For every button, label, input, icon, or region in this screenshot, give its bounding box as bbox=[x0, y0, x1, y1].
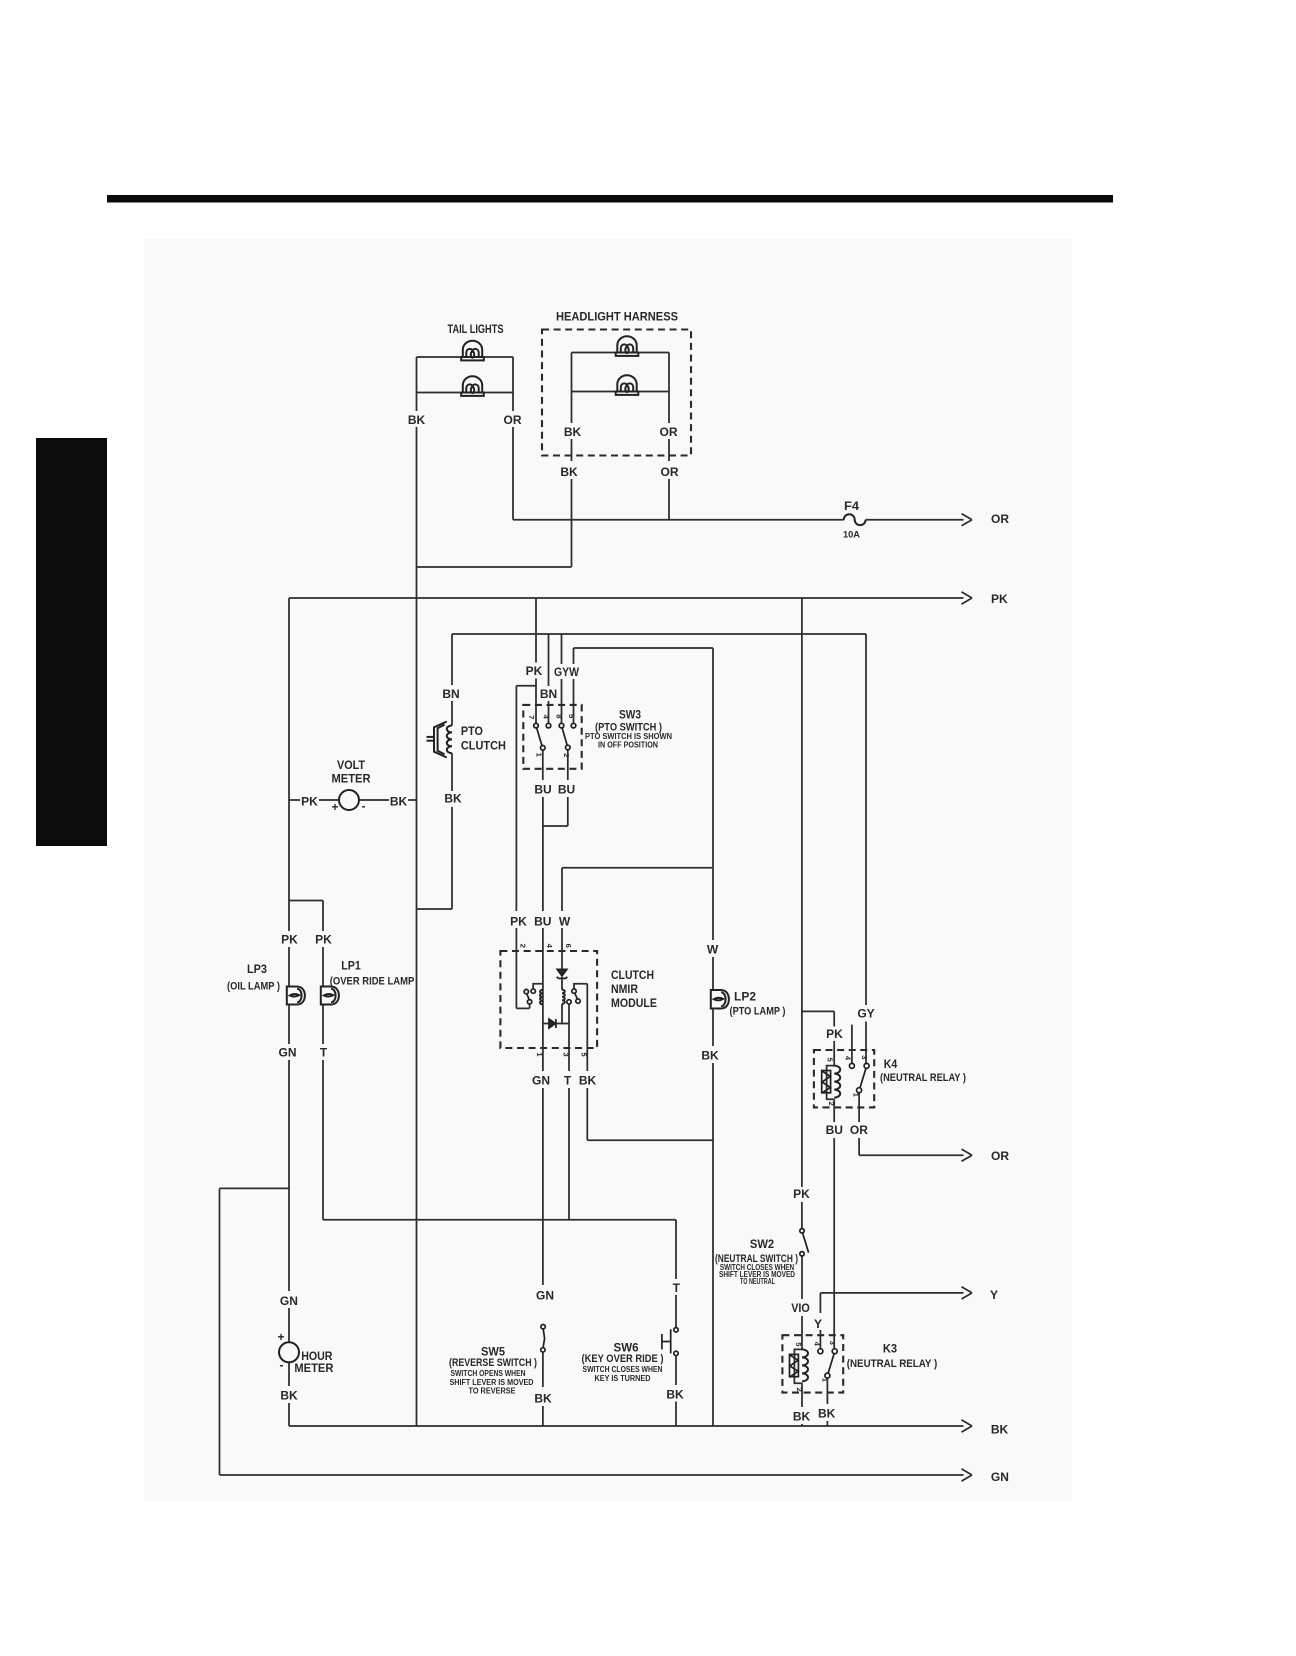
svg-text:OR: OR bbox=[660, 425, 678, 439]
wire Y stub to K3 pin4 bbox=[819, 1293, 821, 1313]
wire BK merge step bbox=[417, 566, 572, 568]
wire tail rung 1 bbox=[417, 356, 514, 358]
svg-text:2: 2 bbox=[795, 1387, 804, 1391]
K4 blade bbox=[860, 1068, 866, 1088]
svg-text:7: 7 bbox=[527, 715, 536, 719]
wire OR feed to fuse F4 bbox=[513, 519, 844, 521]
wire PK split bbox=[289, 900, 323, 902]
wire module pin5 down BK bbox=[586, 1048, 588, 1071]
wire PK branch to K4 bbox=[802, 1010, 834, 1012]
wire BK main vertical bbox=[416, 567, 418, 1426]
svg-text:CLUTCH: CLUTCH bbox=[461, 738, 506, 752]
svg-text:T: T bbox=[564, 1074, 572, 1088]
svg-text:BK: BK bbox=[701, 1049, 719, 1063]
wire GYW SW3 pin8 bbox=[561, 634, 563, 664]
wire LP3 down GN bbox=[288, 1005, 290, 1045]
wire PK bus to SW3 pin7 bbox=[535, 598, 537, 663]
wire PK left vertical bbox=[288, 598, 290, 901]
wire module pin3 down T bbox=[568, 1048, 570, 1071]
wire pin2 jog left bbox=[543, 825, 568, 827]
SW5 blade bbox=[543, 1329, 545, 1348]
wire GY horizontal bbox=[452, 633, 866, 635]
svg-text:OR: OR bbox=[991, 512, 1009, 526]
wire OR terminal arrow bbox=[859, 1154, 963, 1156]
wire volt meter horizontal bbox=[289, 799, 300, 801]
SW6 pushbutton actuator bbox=[662, 1329, 671, 1353]
top rule bar bbox=[107, 195, 1113, 203]
svg-text:BN: BN bbox=[442, 687, 459, 701]
svg-text:BK: BK bbox=[991, 1423, 1009, 1437]
coil PTO clutch bbox=[447, 726, 452, 754]
wire module pin1 down GN bbox=[542, 1048, 544, 1071]
wire K3 coil down BK bbox=[801, 1383, 803, 1407]
svg-text:2: 2 bbox=[827, 1101, 836, 1105]
wire LP1 vertical bbox=[322, 901, 324, 932]
module coil1 line (BU-GN) bbox=[542, 951, 544, 1048]
K4 pin3 circle bbox=[864, 1063, 869, 1068]
module coil 1 bbox=[540, 990, 543, 1005]
dashed box K3 bbox=[782, 1335, 843, 1392]
svg-text:METER: METER bbox=[294, 1361, 333, 1375]
svg-text:PK: PK bbox=[826, 1027, 843, 1041]
svg-text:BU: BU bbox=[558, 783, 575, 797]
svg-text:(OIL LAMP ): (OIL LAMP ) bbox=[227, 981, 280, 993]
K4 pin4 stub bbox=[851, 1025, 853, 1064]
module pin3 wire bbox=[568, 1004, 570, 1048]
svg-text:BK: BK bbox=[564, 425, 582, 439]
SW3 blade 2 bbox=[562, 728, 567, 746]
svg-text:TAIL LIGHTS: TAIL LIGHTS bbox=[448, 322, 504, 336]
wire LP3 vertical bbox=[288, 901, 290, 932]
svg-text:OR: OR bbox=[661, 465, 679, 479]
svg-text:6: 6 bbox=[564, 944, 573, 948]
svg-text:LP2: LP2 bbox=[734, 990, 756, 1004]
svg-text:BK: BK bbox=[579, 1074, 597, 1088]
module contact 1 bbox=[524, 989, 528, 993]
wire tail rung 2 bbox=[417, 392, 514, 394]
wire tail BK vertical bbox=[416, 357, 418, 411]
svg-text:BU: BU bbox=[826, 1123, 843, 1137]
dashed box headlight harness bbox=[542, 330, 691, 456]
clutch plates symbol bbox=[427, 722, 447, 758]
wire PK to SW2 bbox=[801, 1202, 803, 1229]
wire BN clutch bbox=[451, 634, 453, 685]
SW2 blade bbox=[803, 1233, 809, 1253]
SW3 pin circles bbox=[534, 723, 539, 728]
wire SW6 down BK bbox=[675, 1356, 677, 1385]
svg-text:BK: BK bbox=[280, 1389, 298, 1403]
lamp LP3 bbox=[287, 987, 299, 1005]
svg-text:BK: BK bbox=[560, 465, 578, 479]
svg-text:BU: BU bbox=[534, 783, 551, 797]
K3 pin1 circle bbox=[825, 1373, 830, 1378]
wire SW3 pin1 down BU bbox=[542, 750, 544, 780]
module diode2 horizontal bbox=[543, 1023, 569, 1025]
module diode1 wire bbox=[561, 951, 563, 969]
wire W top horizontal bbox=[574, 647, 714, 649]
svg-text:(PTO LAMP ): (PTO LAMP ) bbox=[730, 1006, 786, 1018]
svg-text:METER: METER bbox=[332, 772, 371, 786]
wire hl BK vertical bbox=[571, 353, 573, 424]
wire K4 coil down BU bbox=[833, 1099, 835, 1122]
svg-text:-: - bbox=[362, 799, 366, 813]
wire fuse to OR terminal arrow bbox=[866, 519, 964, 521]
svg-text:(NEUTRAL RELAY ): (NEUTRAL RELAY ) bbox=[880, 1072, 966, 1084]
module coil2 wire bbox=[561, 977, 563, 990]
svg-text:K4: K4 bbox=[884, 1057, 898, 1071]
wire W right vertical bbox=[712, 648, 714, 868]
svg-text:PK: PK bbox=[281, 933, 298, 947]
svg-text:GN: GN bbox=[536, 1289, 554, 1303]
svg-text:OR: OR bbox=[504, 413, 522, 427]
K4 coil bbox=[834, 1066, 840, 1098]
wire GY vertical to K4 bbox=[865, 634, 867, 1005]
svg-text:LP3: LP3 bbox=[247, 962, 267, 976]
wire T to SW6 bbox=[675, 1295, 677, 1327]
wire tail OR vertical bbox=[512, 357, 514, 411]
lamp LP2 bbox=[711, 990, 723, 1009]
lamp tail 1 bbox=[463, 341, 482, 357]
K3 coil bbox=[802, 1349, 808, 1381]
svg-text:8: 8 bbox=[555, 714, 564, 718]
svg-text:BK: BK bbox=[444, 792, 462, 806]
svg-text:(OVER RIDE LAMP: (OVER RIDE LAMP bbox=[330, 976, 415, 988]
wire SW2 down VIO bbox=[801, 1256, 803, 1299]
lamp tail 2 bbox=[463, 376, 482, 392]
wire K4 pin1 down OR bbox=[858, 1093, 860, 1122]
svg-text:KEY IS TURNED: KEY IS TURNED bbox=[595, 1373, 651, 1383]
module contact 2 bbox=[572, 989, 576, 993]
wire W bottom horizontal bbox=[562, 867, 713, 869]
SW2 bottom contact bbox=[800, 1252, 804, 1256]
svg-text:PK: PK bbox=[793, 1187, 810, 1201]
hour meter circle bbox=[279, 1342, 299, 1362]
dashed box module bbox=[500, 951, 597, 1048]
svg-text:IN OFF POSITION: IN OFF POSITION bbox=[598, 740, 658, 750]
fuse F4 bbox=[844, 514, 866, 525]
wire clutch BK down bbox=[451, 753, 453, 791]
svg-text:3: 3 bbox=[860, 1055, 869, 1059]
dashed box K4 bbox=[814, 1050, 874, 1107]
lamp headlight 2 bbox=[617, 375, 636, 391]
wire hl rung 2 bbox=[572, 391, 670, 393]
svg-text:GYW: GYW bbox=[554, 665, 580, 679]
svg-text:PK: PK bbox=[510, 915, 527, 929]
svg-text:2: 2 bbox=[562, 753, 571, 757]
wire hl rung 1 bbox=[572, 352, 670, 354]
wire W to LP2 bbox=[712, 868, 714, 940]
wire W module pin6 feed bbox=[561, 868, 563, 911]
svg-text:BK: BK bbox=[666, 1388, 684, 1402]
svg-text:BK: BK bbox=[793, 1410, 811, 1424]
K3 pin3 circle bbox=[832, 1349, 837, 1354]
svg-text:BK: BK bbox=[534, 1392, 552, 1406]
module pin5 wire bbox=[586, 984, 588, 1048]
svg-text:Y: Y bbox=[814, 1317, 822, 1331]
K3 blade bbox=[828, 1354, 834, 1374]
dashed box SW3 bbox=[523, 705, 581, 769]
svg-text:+: + bbox=[331, 800, 338, 814]
svg-text:PK: PK bbox=[526, 664, 543, 678]
svg-text:3: 3 bbox=[828, 1341, 837, 1345]
wire GN to hour meter bbox=[288, 1308, 290, 1342]
svg-text:PK: PK bbox=[301, 795, 318, 809]
SW5 top contact bbox=[541, 1325, 545, 1329]
svg-text:K3: K3 bbox=[883, 1342, 897, 1356]
SW6 bottom contact bbox=[674, 1351, 678, 1355]
svg-text:NMIR: NMIR bbox=[611, 982, 638, 996]
svg-text:PK: PK bbox=[315, 933, 332, 947]
lamp headlight 1 bbox=[617, 336, 636, 352]
module coil 2 bbox=[562, 990, 565, 1004]
wire PK branch to module pin2 bbox=[516, 685, 536, 687]
svg-text:SW2: SW2 bbox=[750, 1237, 775, 1251]
svg-text:OR: OR bbox=[991, 1149, 1009, 1163]
SW2 top contact bbox=[800, 1229, 804, 1233]
svg-text:TO NEUTRAL: TO NEUTRAL bbox=[740, 1276, 775, 1286]
wire K3 pin1 down BK bbox=[826, 1378, 828, 1404]
svg-text:GN: GN bbox=[280, 1294, 298, 1308]
SW5 bottom contact bbox=[541, 1348, 545, 1352]
svg-text:(NEUTRAL RELAY ): (NEUTRAL RELAY ) bbox=[847, 1358, 938, 1370]
wire BU module pin4 feed bbox=[542, 928, 544, 951]
svg-text:SW3: SW3 bbox=[619, 708, 641, 722]
svg-text:MODULE: MODULE bbox=[611, 996, 657, 1010]
K3 pin4 circle bbox=[818, 1349, 823, 1354]
svg-text:CLUTCH: CLUTCH bbox=[611, 968, 654, 982]
SW6 top contact bbox=[674, 1328, 678, 1332]
wire hl OR vertical bbox=[668, 353, 670, 424]
svg-text:GN: GN bbox=[279, 1046, 297, 1060]
lamp LP1 bbox=[321, 987, 333, 1005]
wire hour meter down BK bbox=[288, 1362, 290, 1386]
svg-text:VIO: VIO bbox=[791, 1301, 810, 1315]
svg-text:LP1: LP1 bbox=[341, 959, 361, 973]
svg-text:GY: GY bbox=[857, 1007, 874, 1021]
svg-text:GN: GN bbox=[991, 1470, 1009, 1484]
left black sidebar tab bbox=[36, 438, 107, 846]
K4 coil bracket bbox=[827, 1066, 835, 1100]
svg-text:BN: BN bbox=[540, 687, 557, 701]
svg-text:Y: Y bbox=[990, 1288, 998, 1302]
wire W SW3 pin5 up bbox=[573, 679, 575, 723]
wire clutch BK to main BK bbox=[417, 908, 453, 910]
wire T horizontal bbox=[323, 1219, 676, 1221]
svg-text:T: T bbox=[320, 1046, 328, 1060]
svg-text:W: W bbox=[559, 915, 571, 929]
svg-text:+: + bbox=[277, 1330, 284, 1344]
svg-text:PK: PK bbox=[991, 592, 1008, 606]
svg-text:GN: GN bbox=[532, 1074, 550, 1088]
wire LP1 down T bbox=[322, 1005, 324, 1045]
svg-text:BK: BK bbox=[818, 1407, 836, 1421]
wire LP2 down BK bbox=[712, 1009, 714, 1047]
svg-text:W: W bbox=[707, 943, 719, 957]
wire PK drop from bus bbox=[801, 598, 803, 1187]
svg-text:BU: BU bbox=[534, 915, 551, 929]
svg-text:HEADLIGHT HARNESS: HEADLIGHT HARNESS bbox=[556, 310, 678, 324]
svg-text:PTO: PTO bbox=[461, 724, 483, 738]
svg-text:OR: OR bbox=[850, 1123, 868, 1137]
wire GN branch left bbox=[220, 1187, 290, 1189]
wire T down to SW6 bbox=[675, 1220, 677, 1279]
svg-text:TO REVERSE: TO REVERSE bbox=[469, 1386, 516, 1396]
module pin2 internal wire bbox=[515, 951, 517, 1008]
svg-text:BK: BK bbox=[390, 795, 408, 809]
module diode 1 (zener) bbox=[557, 969, 568, 978]
K4 pin1 circle bbox=[857, 1088, 862, 1093]
svg-text:2: 2 bbox=[518, 944, 527, 948]
SW3 blade 1 bbox=[537, 728, 542, 746]
wire SW3 pin2 down bbox=[567, 750, 569, 780]
K3 coil bracket bbox=[794, 1349, 802, 1383]
svg-text:-: - bbox=[280, 1358, 284, 1372]
module diode 2 bbox=[549, 1019, 556, 1028]
svg-text:10A: 10A bbox=[843, 530, 860, 541]
wire SW5 down BK bbox=[542, 1352, 544, 1387]
svg-text:F4: F4 bbox=[844, 499, 859, 513]
volt meter circle bbox=[339, 790, 359, 810]
wire BN SW3 pin4 bbox=[548, 634, 550, 686]
svg-text:T: T bbox=[673, 1281, 681, 1295]
svg-text:BK: BK bbox=[408, 413, 426, 427]
svg-text:VOLT: VOLT bbox=[337, 758, 366, 772]
